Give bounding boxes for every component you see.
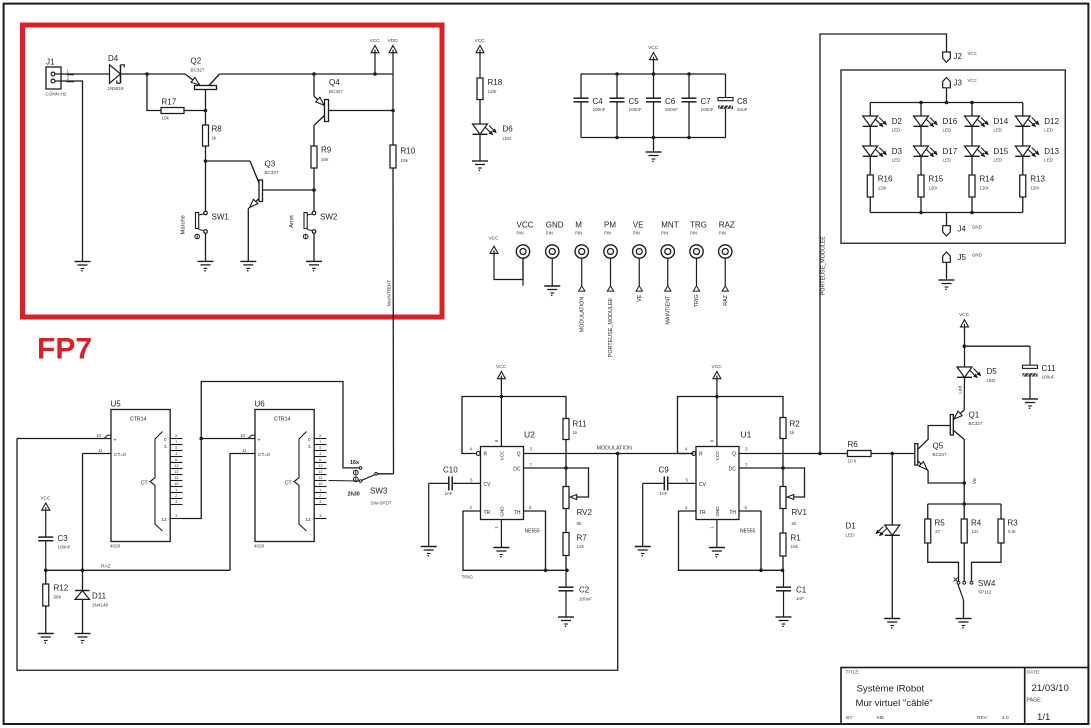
svg-text:120r: 120r	[1030, 186, 1039, 191]
svg-text:Système iRobot: Système iRobot	[857, 684, 925, 695]
svg-text:R16: R16	[878, 175, 893, 184]
svg-text:120r: 120r	[980, 186, 989, 191]
svg-text:D13: D13	[1044, 147, 1059, 156]
svg-text:LED: LED	[503, 136, 513, 141]
svg-text:D3: D3	[892, 147, 903, 156]
svg-text:RAZ: RAZ	[101, 564, 111, 570]
svg-text:CT=0: CT=0	[258, 452, 270, 458]
svg-text:C5: C5	[629, 97, 640, 106]
svg-text:VCC: VCC	[40, 496, 51, 502]
svg-text:PORTEUSE_MODULEE: PORTEUSE_MODULEE	[608, 298, 614, 358]
svg-text:C1: C1	[796, 586, 807, 595]
svg-text:13: 13	[318, 463, 323, 468]
svg-text:VCC: VCC	[500, 450, 505, 460]
svg-text:SW-SPDT: SW-SPDT	[371, 501, 392, 506]
svg-text:VCC: VCC	[959, 312, 970, 318]
svg-text:1.0: 1.0	[1002, 715, 1009, 721]
svg-text:120r: 120r	[878, 186, 887, 191]
svg-text:BC337: BC337	[265, 170, 279, 175]
svg-text:11: 11	[242, 448, 247, 453]
svg-text:U1: U1	[741, 430, 752, 440]
svg-text:D5: D5	[987, 367, 998, 376]
svg-text:FP7: FP7	[37, 333, 92, 366]
svg-text:R: R	[699, 452, 703, 458]
svg-text:10k: 10k	[162, 116, 170, 121]
svg-text:2: 2	[67, 76, 70, 81]
svg-text:R14: R14	[980, 175, 995, 184]
svg-text:BC327: BC327	[969, 421, 983, 426]
svg-text:D17: D17	[943, 147, 958, 156]
svg-text:LED: LED	[892, 158, 901, 163]
svg-text:D14: D14	[994, 117, 1009, 126]
svg-text:15k: 15k	[791, 544, 799, 549]
svg-text:1nF: 1nF	[796, 596, 804, 601]
svg-text:D12: D12	[1044, 117, 1059, 126]
svg-text:TH: TH	[514, 510, 521, 516]
svg-text:VCC: VCC	[370, 38, 381, 44]
svg-text:SW1: SW1	[212, 213, 230, 222]
svg-text:PORTEUSE_MODULEE: PORTEUSE_MODULEE	[821, 236, 827, 296]
svg-text:CV: CV	[699, 482, 707, 488]
svg-text:R11: R11	[573, 420, 588, 429]
svg-text:R5: R5	[935, 519, 946, 528]
svg-text:LED: LED	[1044, 128, 1053, 133]
svg-text:TRG: TRG	[690, 221, 707, 230]
svg-text:GND: GND	[500, 506, 505, 517]
svg-text:15: 15	[174, 481, 179, 486]
svg-text:100nF: 100nF	[665, 107, 678, 112]
svg-text:BC327: BC327	[191, 68, 205, 73]
svg-text:10: 10	[240, 433, 246, 438]
svg-text:CV: CV	[484, 482, 492, 488]
svg-text:6.8r: 6.8r	[1008, 529, 1016, 534]
svg-text:VCC: VCC	[648, 45, 659, 51]
svg-text:100nF: 100nF	[58, 545, 71, 550]
svg-text:BC337: BC337	[933, 452, 947, 457]
svg-text:1k: 1k	[212, 136, 218, 141]
svg-text:NE555: NE555	[740, 529, 756, 535]
svg-text:SP112: SP112	[978, 590, 992, 595]
svg-text:R6: R6	[848, 440, 859, 449]
svg-text:C8: C8	[737, 97, 748, 106]
svg-text:VCC: VCC	[712, 364, 723, 370]
svg-text:CT=0: CT=0	[114, 452, 126, 458]
svg-text:R13: R13	[1030, 175, 1045, 184]
svg-text:4020: 4020	[110, 543, 121, 548]
svg-text:PIN: PIN	[546, 231, 553, 236]
svg-text:J1: J1	[46, 58, 55, 67]
svg-text:PIN: PIN	[633, 231, 640, 236]
svg-text:MODULATION: MODULATION	[579, 297, 585, 333]
svg-text:VCC: VCC	[968, 78, 977, 83]
svg-text:C7: C7	[701, 97, 712, 106]
svg-text:21/03/10: 21/03/10	[1032, 683, 1069, 694]
svg-text:MODULATION: MODULATION	[597, 446, 633, 452]
svg-text:R9: R9	[321, 146, 332, 155]
svg-text:LED: LED	[994, 128, 1003, 133]
svg-text:RAZ: RAZ	[719, 221, 735, 230]
svg-text:100nF: 100nF	[579, 597, 592, 602]
svg-text:VCC: VCC	[496, 364, 507, 370]
svg-text:5k: 5k	[577, 521, 583, 526]
svg-text:12: 12	[174, 469, 179, 474]
svg-text:TRIG: TRIG	[462, 575, 474, 581]
svg-text:15: 15	[318, 481, 323, 486]
svg-text:R2: R2	[790, 420, 801, 429]
svg-text:10 k: 10 k	[848, 459, 857, 464]
svg-text:12: 12	[318, 469, 323, 474]
svg-text:D11: D11	[92, 592, 107, 601]
svg-text:1k: 1k	[573, 430, 579, 435]
svg-text:StE: StE	[877, 715, 885, 721]
svg-text:12k: 12k	[577, 544, 585, 549]
svg-text:R: R	[484, 452, 488, 458]
svg-text:TITLE:: TITLE:	[846, 670, 860, 676]
svg-text:13: 13	[174, 463, 179, 468]
svg-text:13: 13	[161, 517, 167, 522]
svg-text:LED: LED	[994, 158, 1003, 163]
svg-text:10k: 10k	[321, 157, 329, 162]
svg-text:DATE:: DATE:	[1027, 670, 1041, 676]
svg-text:M: M	[575, 221, 582, 230]
svg-text:+: +	[258, 438, 261, 444]
svg-text:D15: D15	[994, 147, 1009, 156]
svg-text:C10: C10	[443, 466, 458, 475]
svg-text:VDD: VDD	[388, 38, 399, 44]
svg-text:10: 10	[96, 433, 102, 438]
svg-text:C6: C6	[665, 97, 676, 106]
svg-text:BY:: BY:	[846, 715, 853, 721]
svg-text:PIN: PIN	[690, 231, 697, 236]
svg-text:R8: R8	[212, 125, 223, 134]
svg-text:SW4: SW4	[978, 579, 996, 588]
svg-text:D4: D4	[108, 54, 119, 63]
svg-text:1nF: 1nF	[660, 491, 668, 496]
svg-text:TH: TH	[729, 510, 736, 516]
svg-text:C11: C11	[1042, 364, 1057, 373]
svg-text:LED: LED	[943, 128, 952, 133]
svg-text:R10: R10	[401, 147, 416, 156]
svg-text:1N5819: 1N5819	[108, 86, 125, 91]
svg-text:GND: GND	[972, 253, 982, 258]
svg-text:VCC: VCC	[715, 450, 720, 460]
svg-text:R18: R18	[488, 78, 503, 87]
svg-text:VE: VE	[637, 294, 643, 302]
svg-text:NE555: NE555	[525, 529, 541, 535]
svg-text:Q3: Q3	[265, 160, 276, 169]
svg-text:4020: 4020	[254, 543, 265, 548]
svg-text:RAZ: RAZ	[723, 294, 729, 305]
svg-text:1nF: 1nF	[445, 491, 453, 496]
svg-text:10uF: 10uF	[737, 107, 748, 112]
svg-text:120r: 120r	[929, 186, 938, 191]
svg-text:DC: DC	[729, 467, 737, 473]
svg-text:+: +	[114, 438, 117, 444]
svg-text:J5: J5	[958, 253, 967, 262]
svg-text:MNT: MNT	[661, 221, 678, 230]
svg-text:Mur virtuel "câblé": Mur virtuel "câblé"	[856, 698, 933, 709]
svg-text:VCC: VCC	[968, 51, 977, 56]
svg-text:SW2: SW2	[320, 213, 338, 222]
svg-text:PIN: PIN	[575, 231, 582, 236]
svg-text:16s: 16s	[350, 460, 359, 466]
svg-text:C3: C3	[58, 534, 69, 543]
svg-text:Q: Q	[732, 452, 736, 458]
svg-text:11: 11	[98, 448, 103, 453]
svg-text:J2: J2	[954, 52, 963, 61]
svg-text:U5: U5	[111, 400, 122, 409]
svg-text:R3: R3	[1008, 519, 1019, 528]
svg-text:PIN: PIN	[661, 231, 668, 236]
svg-text:CTR14: CTR14	[130, 417, 147, 423]
svg-text:TR: TR	[484, 510, 491, 516]
svg-text:1N4148: 1N4148	[92, 603, 109, 608]
svg-text:U2: U2	[524, 430, 535, 440]
svg-text:C2: C2	[579, 586, 590, 595]
svg-text:J4: J4	[958, 225, 967, 234]
svg-text:C4: C4	[593, 97, 604, 106]
svg-text:R12: R12	[54, 584, 69, 593]
svg-text:100nF: 100nF	[629, 107, 642, 112]
svg-text:CT: CT	[141, 481, 148, 487]
svg-text:VCC: VCC	[475, 38, 486, 44]
svg-text:12r: 12r	[972, 529, 979, 534]
svg-text:Q2: Q2	[191, 57, 202, 66]
svg-text:DC: DC	[513, 467, 521, 473]
svg-text:Q: Q	[517, 452, 521, 458]
svg-text:REV:: REV:	[977, 715, 988, 721]
svg-text:14: 14	[318, 475, 323, 480]
svg-text:VCC: VCC	[489, 236, 500, 242]
svg-text:1/1: 1/1	[1037, 712, 1050, 723]
svg-text:14: 14	[174, 475, 179, 480]
svg-text:PAGE:: PAGE:	[1027, 698, 1042, 704]
svg-text:Q1: Q1	[969, 411, 980, 420]
svg-text:CTR14: CTR14	[274, 417, 291, 423]
svg-text:R1: R1	[791, 534, 802, 543]
svg-text:C9: C9	[659, 466, 670, 475]
svg-text:2h30: 2h30	[348, 492, 360, 498]
svg-text:100uF: 100uF	[1042, 375, 1055, 380]
svg-text:D16: D16	[943, 117, 958, 126]
svg-text:D1: D1	[846, 522, 857, 531]
svg-text:MAINTIENT: MAINTIENT	[387, 280, 393, 306]
svg-text:U6: U6	[255, 400, 266, 409]
svg-text:PIN: PIN	[719, 231, 726, 236]
svg-text:Q5: Q5	[933, 442, 944, 451]
svg-text:R15: R15	[929, 175, 944, 184]
svg-text:LED: LED	[846, 533, 856, 538]
svg-text:SW3: SW3	[370, 487, 388, 496]
svg-text:Led: Led	[957, 386, 962, 394]
svg-text:GND: GND	[715, 506, 720, 517]
svg-text:5k: 5k	[792, 521, 798, 526]
svg-text:1: 1	[67, 69, 70, 74]
svg-text:LED: LED	[987, 378, 997, 383]
svg-text:J3: J3	[954, 79, 963, 88]
svg-text:TR: TR	[699, 510, 706, 516]
svg-text:CONN-H2: CONN-H2	[46, 92, 67, 97]
svg-text:D2: D2	[892, 117, 903, 126]
svg-text:Marche: Marche	[181, 215, 187, 234]
svg-text:GND: GND	[972, 225, 982, 230]
svg-text:VE: VE	[633, 221, 644, 230]
svg-text:PIN: PIN	[517, 231, 524, 236]
svg-text:LED: LED	[943, 158, 952, 163]
svg-text:56k: 56k	[54, 595, 62, 600]
svg-text:13: 13	[305, 517, 311, 522]
svg-text:R17: R17	[162, 98, 177, 107]
svg-text:Q4: Q4	[329, 78, 340, 87]
svg-text:1k: 1k	[790, 430, 796, 435]
svg-text:GND: GND	[546, 221, 564, 230]
svg-text:BC327: BC327	[329, 89, 343, 94]
svg-text:PIN: PIN	[604, 231, 611, 236]
svg-text:100nF: 100nF	[593, 107, 606, 112]
svg-text:R4: R4	[971, 519, 982, 528]
svg-text:PM: PM	[604, 221, 616, 230]
svg-text:VE: VE	[972, 478, 977, 484]
svg-text:RV1: RV1	[792, 508, 808, 517]
svg-text:27: 27	[935, 529, 941, 534]
svg-text:LED: LED	[892, 128, 901, 133]
svg-text:VCC: VCC	[517, 221, 534, 230]
svg-text:LED: LED	[1044, 158, 1053, 163]
svg-text:CT: CT	[285, 481, 292, 487]
svg-text:MAINTIENT: MAINTIENT	[665, 295, 671, 325]
svg-text:10k: 10k	[401, 158, 409, 163]
svg-text:D6: D6	[503, 125, 514, 134]
svg-text:RV2: RV2	[577, 508, 593, 517]
svg-text:120r: 120r	[488, 89, 498, 94]
svg-text:TRIG: TRIG	[694, 294, 700, 307]
svg-text:100nF: 100nF	[701, 107, 714, 112]
svg-text:R7: R7	[577, 534, 588, 543]
svg-text:Arret: Arret	[289, 215, 295, 228]
